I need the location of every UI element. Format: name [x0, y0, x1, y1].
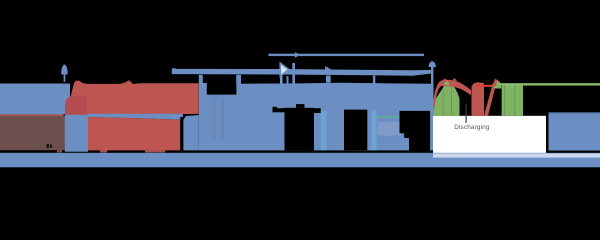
red bits under axis	[57, 150, 62, 152]
vertical bar after arrowhead	[292, 63, 295, 84]
tick B	[236, 75, 241, 84]
blue area top-left	[0, 84, 70, 115]
bump arrowhead on thick line	[325, 66, 333, 70]
green apex poking through red band	[443, 80, 450, 85]
bright red line	[476, 85, 493, 87]
tick C	[326, 76, 331, 83]
blue box right	[549, 112, 600, 150]
blue column under dome	[65, 115, 88, 152]
light column 1	[321, 111, 327, 150]
thin green line to right edge	[500, 83, 600, 85]
red curve line left	[0, 114, 64, 116]
thin arrow line	[268, 54, 424, 56]
red mass B	[472, 82, 485, 116]
green solid group 2	[502, 85, 523, 116]
up-arrow left	[61, 64, 67, 74]
greenish line behind band	[376, 116, 401, 118]
tick under arrow tip	[287, 76, 289, 84]
red diagonal stripe	[484, 83, 497, 116]
svg-text:Discharging: Discharging	[454, 124, 490, 131]
tick D	[373, 76, 375, 84]
black pole at valley edge	[180, 117, 183, 151]
hollow arrowhead	[280, 63, 289, 76]
small arrowhead on thin line	[295, 52, 301, 58]
red cap over group 1	[433, 80, 471, 107]
light column 2	[372, 110, 377, 150]
blue load-curve band in valley	[88, 114, 183, 120]
up-arrow right	[429, 61, 436, 67]
axis label marks on brown	[47, 144, 50, 148]
middle blue band	[199, 83, 434, 151]
light tick under arrow back	[280, 76, 283, 84]
green peak	[494, 79, 502, 88]
white label box	[433, 116, 546, 154]
tick A	[199, 75, 203, 83]
factory silhouette black	[273, 107, 278, 113]
thick annotation arrow line	[172, 68, 176, 71]
building A black	[344, 110, 367, 151]
red tip on peak	[493, 78, 497, 86]
dark red dome	[65, 96, 87, 115]
small red bumps on band	[443, 78, 448, 80]
red mountain area	[66, 80, 199, 115]
bottom blue strip	[0, 153, 600, 168]
green bars group 1	[434, 81, 460, 117]
red charging block	[88, 117, 180, 150]
tower hint dark strokes	[213, 98, 216, 140]
leader line	[466, 104, 467, 123]
light patch between buildings	[378, 122, 402, 136]
building B black	[400, 111, 431, 151]
blue fill right of black pole	[183, 115, 199, 150]
pale strip right	[433, 153, 600, 157]
brown overlap block	[0, 116, 65, 150]
